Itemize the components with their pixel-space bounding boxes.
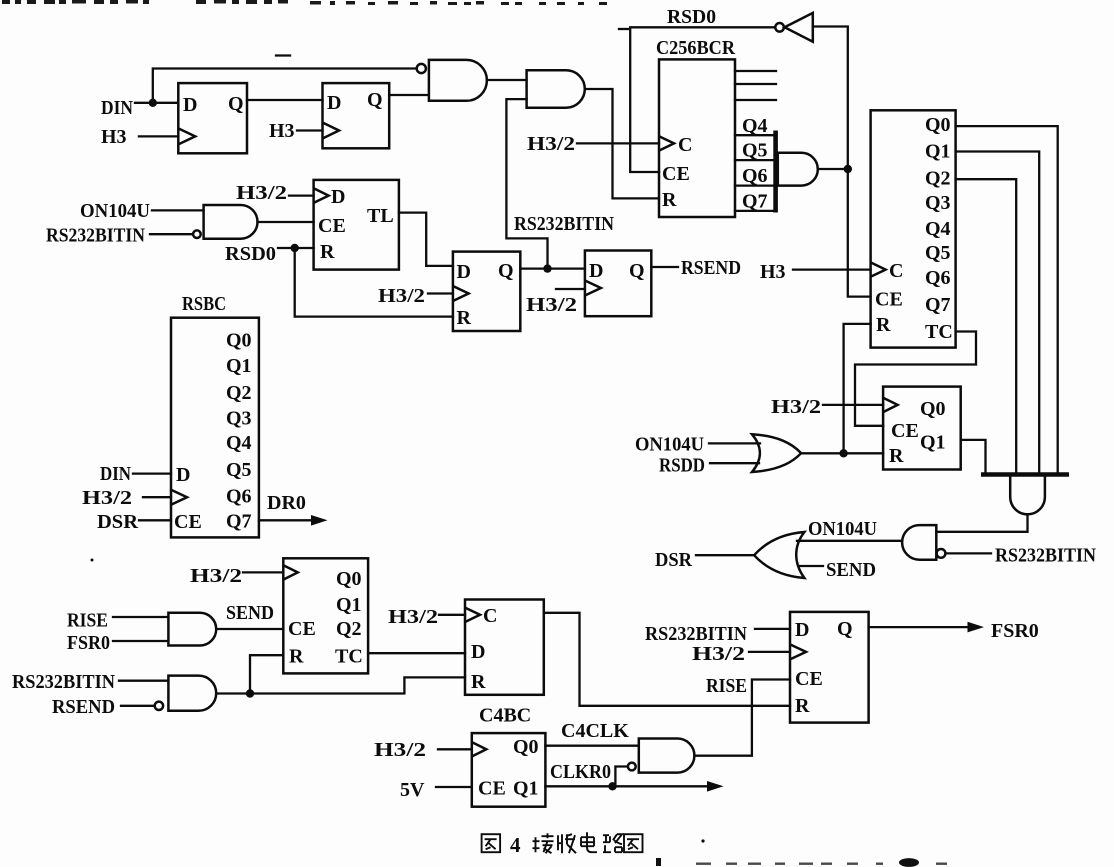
svg-text:C256BCR: C256BCR — [656, 37, 736, 59]
svg-text:ON104U: ON104U — [808, 518, 877, 540]
svg-text:Q: Q — [837, 618, 853, 640]
wire DSR to RSBC.CE — [139, 519, 171, 521]
wire NAND3 out (ON104U) to OR2 — [797, 540, 902, 542]
wire RSDD to OR1 — [710, 462, 759, 464]
svg-text:DIN: DIN — [101, 97, 133, 119]
OR gate OR1 (ON104U + RSDD) — [752, 434, 801, 472]
svg-text:Q4: Q4 — [742, 115, 768, 137]
svg-text:Q2: Q2 — [925, 168, 951, 190]
wire AND4 out to NAND3 — [936, 514, 1027, 532]
AND gate AND4 (downward) — [1010, 476, 1045, 514]
svg-text:Q0: Q0 — [920, 398, 946, 420]
wire H3 to U2.C — [793, 268, 871, 270]
wire RISE to AND5 — [113, 616, 168, 618]
svg-text:Q2: Q2 — [336, 618, 362, 640]
svg-text:RISE: RISE — [706, 675, 747, 697]
svg-text:D: D — [331, 186, 345, 208]
wire U2.TC to U3.CE — [855, 332, 976, 426]
wire ON104U to OR1 — [709, 442, 760, 444]
svg-text:RSDD: RSDD — [659, 455, 705, 477]
svg-text:RSD0: RSD0 — [667, 6, 716, 28]
svg-text:CE: CE — [288, 618, 316, 640]
wire RS232BITIN node up to AND2 lower input — [506, 99, 547, 269]
svg-text:CE: CE — [891, 420, 919, 442]
inverting bubble on NAND1 lower input — [193, 230, 201, 238]
svg-text:Q: Q — [498, 260, 514, 282]
inverting bubble on NAND3 lower input — [937, 549, 946, 558]
AND gate AND1 (edge detect) — [429, 60, 487, 101]
wire ON104U to NAND1 — [152, 209, 204, 211]
node CLKR0 junction — [608, 782, 616, 790]
wire FSR0 to AND5 — [113, 640, 168, 642]
wire U2.Q1 to AND4 — [956, 152, 1040, 473]
svg-text:Q: Q — [629, 260, 645, 282]
bus bar AND4 input — [981, 472, 1069, 477]
svg-text:H3/2: H3/2 — [526, 294, 577, 316]
node DIN junction — [149, 99, 157, 107]
svg-text:CE: CE — [478, 778, 506, 800]
wire FF1.Q to FF2.D — [247, 99, 323, 101]
wire NOT1 out RSD0 to C256BCR CE — [630, 27, 775, 172]
svg-text:Q0: Q0 — [513, 736, 539, 758]
svg-text:Q: Q — [228, 93, 244, 115]
wire U2.Q0 to AND4 — [956, 126, 1058, 472]
AND gate AND2 — [527, 70, 585, 107]
wire node across to FF5.R — [250, 677, 465, 693]
D flip-flop FF4 (RSEND) — [585, 251, 651, 317]
bus bar for Q4-Q7 into AND3 — [773, 131, 778, 213]
svg-text:SEND: SEND — [226, 602, 274, 624]
wire C4BC.Q0 (C4CLK) to AND6 — [545, 745, 638, 747]
svg-text:R: R — [471, 671, 486, 693]
svg-text:H3/2: H3/2 — [527, 133, 575, 155]
wire CLKR0 node up to AND6 bubble — [615, 767, 628, 787]
svg-text:D: D — [589, 260, 603, 282]
wire AND6 out up to FF6.CE (RISE) — [694, 680, 790, 756]
wire Q7 cell line — [735, 210, 774, 212]
wire NAND2 out to node — [216, 692, 250, 694]
svg-text:R: R — [457, 307, 472, 329]
D flip-flop FF1 (DIN sampler 1) — [178, 83, 247, 153]
wire NAND1 out to TL.CE — [258, 221, 314, 223]
svg-text:Q4: Q4 — [925, 218, 951, 240]
wire RS232BITIN to FF6.D — [755, 628, 790, 630]
caption figure title (CJK drawn as shapes): 图 4 接收电路图 — [482, 832, 643, 857]
wire RS232BITIN to NAND1 bubble — [150, 233, 193, 235]
counter C256BCR — [659, 59, 735, 217]
wire SEND to OR2 — [799, 565, 823, 567]
svg-text:R: R — [876, 314, 891, 336]
svg-text:DR0: DR0 — [267, 492, 306, 514]
svg-text:RS232BITIN: RS232BITIN — [46, 225, 145, 247]
wire C256BCR unused output stub 2 — [735, 83, 776, 85]
D flip-flop FF5 (C-block) — [465, 600, 544, 695]
svg-text:DSR: DSR — [97, 511, 139, 533]
char 路 — [603, 834, 622, 852]
wire U4.TC to FF5.D — [368, 652, 465, 654]
svg-text:RS232BITIN: RS232BITIN — [514, 213, 614, 235]
node OR1 output junction — [839, 449, 847, 457]
AND gate AND3 (Q4.Q5.Q6.Q7 decode) — [778, 153, 818, 186]
NAND gate NAND3 (mirrored) — [902, 525, 936, 560]
svg-text:R: R — [289, 646, 304, 668]
wire RSD0 to TL.R — [278, 247, 314, 249]
D flip-flop FF3 — [453, 252, 520, 331]
svg-text:C4BC: C4BC — [479, 705, 531, 727]
svg-text:C: C — [483, 605, 497, 627]
svg-text:CE: CE — [174, 511, 202, 533]
wire AND2 out down to C256BCR R — [585, 89, 659, 198]
wire C256BCR unused output stub 3 — [735, 99, 776, 101]
wire DIN to RSBC.D — [133, 472, 171, 474]
inverting bubble on NAND2 lower input — [155, 702, 163, 710]
OR gate OR2 (mirrored, drives DSR) — [754, 532, 804, 578]
inverting bubble on AND1 top input — [417, 64, 426, 73]
svg-text:Q1: Q1 — [513, 778, 539, 800]
svg-text:RS232BITIN: RS232BITIN — [995, 545, 1096, 567]
node NAND2 output junction — [246, 689, 254, 697]
wire RSD0 node down to FF3.R — [295, 248, 453, 317]
wire AND1 out to AND2 — [487, 79, 527, 81]
svg-text:Q6: Q6 — [226, 486, 252, 508]
svg-text:CLKR0: CLKR0 — [550, 761, 611, 783]
wire U2.R to OR1 node — [844, 324, 871, 453]
svg-text:Q3: Q3 — [226, 408, 252, 430]
char 接 — [533, 833, 554, 853]
AND gate AND5 (RISE.FSR0 = SEND) — [168, 613, 216, 646]
svg-text:H3/2: H3/2 — [374, 739, 426, 761]
svg-text:Q5: Q5 — [226, 459, 252, 481]
node RSD0 junction — [291, 244, 299, 252]
counter U4 (Q0-Q2/TC) — [283, 558, 368, 673]
svg-text:ON104U: ON104U — [80, 200, 150, 222]
wire H3/2 to RSBC clock — [143, 496, 171, 498]
svg-text:H3/2: H3/2 — [190, 565, 242, 587]
svg-text:RSEND: RSEND — [681, 257, 741, 279]
wire TL out to FF3.D — [399, 213, 453, 266]
svg-text:RS232BITIN: RS232BITIN — [645, 623, 747, 645]
wire C4BC.Q1 (CLKR0) out with arrow — [545, 781, 723, 792]
svg-text:5V: 5V — [400, 779, 425, 801]
svg-text:Q3: Q3 — [925, 192, 951, 214]
svg-text:RSEND: RSEND — [52, 696, 115, 718]
wire RS232BITIN to NAND3 bubble — [946, 552, 991, 554]
svg-text:Q7: Q7 — [925, 294, 951, 316]
counter RSBC (8-bit) — [171, 318, 259, 538]
svg-text:H3/2: H3/2 — [692, 643, 745, 665]
svg-text:FSR0: FSR0 — [67, 632, 110, 654]
svg-text:DIN: DIN — [100, 463, 131, 485]
wire H3/2 to FF5 clock — [439, 614, 465, 616]
wire FF2.Q to AND1 — [389, 94, 429, 96]
svg-text:C: C — [678, 134, 692, 156]
wire RSBC.Q7 out DR0 with arrow — [259, 515, 328, 526]
svg-text:H3/2: H3/2 — [236, 182, 287, 204]
svg-text:H3: H3 — [760, 261, 786, 283]
svg-text:H3/2: H3/2 — [82, 487, 132, 509]
wire FF3.Q to FF4.D — [520, 267, 585, 269]
svg-text:Q2: Q2 — [226, 382, 252, 404]
wire FF4 clock stub — [556, 288, 585, 290]
svg-text:TC: TC — [335, 646, 363, 668]
wire H3/2 to C256BCR.C — [577, 142, 659, 144]
svg-text:D: D — [457, 261, 471, 283]
char 图 (second) — [624, 834, 643, 852]
svg-text:D: D — [327, 92, 341, 114]
stray speck left-middle — [91, 559, 94, 562]
svg-text:TL: TL — [367, 205, 394, 227]
NAND gate NAND2 (RS232BITIN / RSEND) — [168, 676, 216, 711]
svg-text:H3/2: H3/2 — [771, 396, 821, 418]
char 电 — [581, 832, 597, 852]
cropped text line fragments (top of page) — [2, 0, 607, 5]
svg-text:H3: H3 — [101, 126, 127, 148]
wire FF4.Q to RSEND — [651, 266, 678, 268]
svg-text:D: D — [183, 94, 197, 116]
svg-text:C4CLK: C4CLK — [561, 720, 629, 742]
AND gate AND6 (C4CLK gate) — [639, 739, 695, 773]
wire RS232BITIN to NAND2 — [119, 680, 168, 682]
stray mark dash above C256BCR — [619, 28, 628, 30]
wire H3/2 to TL clock/D — [289, 194, 314, 196]
svg-text:TC: TC — [925, 321, 953, 343]
svg-text:Q0: Q0 — [226, 330, 252, 352]
wire OR2 out to DSR — [696, 554, 754, 556]
D flip-flop FF6 (FSR0) — [790, 612, 869, 723]
wire H3/2 to FF6 clock — [749, 651, 790, 653]
svg-text:SEND: SEND — [826, 559, 876, 581]
node FF3.Q junction — [543, 264, 551, 272]
svg-text:H3/2: H3/2 — [388, 606, 438, 628]
svg-text:Q1: Q1 — [226, 355, 252, 377]
svg-text:4: 4 — [510, 833, 521, 857]
svg-text:C: C — [889, 260, 903, 282]
wire DIN node up and across to AND1 inverted input — [153, 69, 417, 103]
svg-text:Q5: Q5 — [925, 242, 951, 264]
svg-text:Q6: Q6 — [742, 165, 768, 187]
stray mark dash upper-middle — [276, 54, 290, 56]
svg-text:R: R — [889, 445, 904, 467]
svg-text:ON104U: ON104U — [635, 434, 704, 456]
stray dot near caption — [701, 839, 704, 842]
wire FF5 out to FF6.R — [544, 613, 790, 706]
wire H3/2 to C4BC clock — [438, 748, 472, 750]
inverting bubble on AND6 lower input — [628, 763, 636, 771]
svg-text:RISE: RISE — [67, 610, 108, 632]
svg-text:DSR: DSR — [655, 549, 693, 571]
wire RSEND to NAND2 bubble — [121, 705, 155, 707]
svg-text:R: R — [320, 241, 335, 263]
svg-text:RS232BITIN: RS232BITIN — [12, 671, 116, 693]
svg-text:FSR0: FSR0 — [991, 620, 1039, 642]
svg-text:Q0: Q0 — [925, 114, 951, 136]
svg-text:Q5: Q5 — [742, 140, 768, 162]
svg-text:Q7: Q7 — [226, 511, 252, 533]
svg-text:CE: CE — [318, 215, 346, 237]
wire DIN to FF1.D — [135, 102, 178, 104]
svg-text:R: R — [795, 695, 810, 717]
svg-text:RSBC: RSBC — [182, 293, 226, 315]
wire AND5 out SEND to U4.CE — [216, 628, 283, 630]
cropped next-line fragments (bottom edge) — [656, 858, 947, 867]
wire U3.Q1 to AND4 — [961, 440, 986, 472]
svg-text:H3: H3 — [269, 120, 295, 142]
svg-text:CE: CE — [795, 668, 823, 690]
svg-text:CE: CE — [875, 289, 903, 311]
svg-text:Q7: Q7 — [742, 191, 768, 213]
svg-text:Q1: Q1 — [925, 141, 951, 163]
svg-text:Q1: Q1 — [336, 594, 362, 616]
char 收 — [558, 834, 576, 853]
svg-text:D: D — [471, 641, 485, 663]
wire H3/2 to U3 clock — [823, 404, 883, 406]
svg-text:CE: CE — [662, 163, 690, 185]
wire node up to U4.R — [250, 655, 283, 693]
wire Q6 cell line — [735, 184, 774, 186]
wire H3/2 to FF3 clock — [428, 292, 453, 294]
NAND gate NAND1 (ON104U / RS232BITIN) — [204, 205, 258, 239]
wire Q4 cell line — [735, 134, 774, 136]
wire OR1 out to U3.R — [801, 452, 883, 454]
char 图 — [482, 834, 501, 852]
counter U2 (8-bit, Q0-Q7/TC) — [871, 110, 956, 347]
counter U3 (2-bit, Q0/Q1) — [883, 387, 961, 470]
svg-text:Q1: Q1 — [920, 432, 946, 454]
wire H3 to FF1 clock — [139, 135, 178, 137]
svg-text:Q6: Q6 — [925, 267, 951, 289]
counter TL (timing block) — [314, 180, 399, 270]
svg-text:Q0: Q0 — [336, 568, 362, 590]
wire U2.Q2 to AND4 — [956, 179, 1017, 472]
wire 5V to C4BC.CE — [436, 786, 472, 788]
wire C256BCR unused output stub 1 — [735, 70, 776, 72]
wire NOT1 input from AND3 node vertical — [813, 27, 871, 297]
wire Q5 cell line — [735, 159, 774, 161]
svg-text:H3/2: H3/2 — [378, 285, 425, 307]
counter C4BC (2-bit) — [472, 733, 546, 807]
svg-text:Q4: Q4 — [226, 432, 252, 454]
wire H3/2 to U4 clock — [243, 571, 283, 573]
D flip-flop FF2 (DIN sampler 2) — [323, 83, 390, 148]
wire H3 to FF2 clock — [297, 129, 323, 131]
svg-text:R: R — [662, 189, 677, 211]
svg-text:D: D — [795, 619, 809, 641]
svg-text:D: D — [176, 464, 190, 486]
node AND3 output on vertical — [844, 165, 852, 173]
svg-text:RSD0: RSD0 — [225, 243, 276, 265]
inverter NOT1 (RSD0 generator) — [775, 13, 813, 42]
wire FF6.Q out FSR0 with arrow — [869, 622, 984, 633]
wire AND3 out to node — [818, 168, 848, 170]
svg-text:Q: Q — [367, 89, 383, 111]
